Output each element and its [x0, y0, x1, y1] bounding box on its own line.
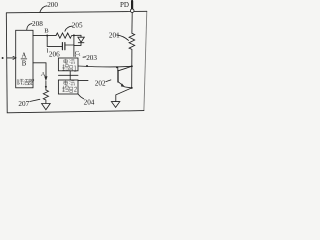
current mirror 2 box	[58, 80, 78, 94]
svg-text:208: 208	[32, 20, 43, 28]
junction dot emitter node	[131, 87, 133, 89]
label C1 leader	[74, 55, 76, 57]
ground 204 triangle	[111, 102, 119, 108]
arrow on A wire	[44, 76, 47, 81]
outer block border 200	[6, 11, 147, 113]
junction dot at 205/206 node	[73, 34, 75, 36]
node A wire	[33, 63, 46, 90]
resistor R205	[56, 33, 81, 38]
mirror2 text: dian liu / jing xiang 2	[62, 81, 76, 93]
divider box text: chu fa qi	[17, 79, 34, 85]
svg-text:200: 200	[47, 1, 58, 9]
label 203 leader	[83, 56, 86, 58]
capacitor right lead	[65, 44, 74, 46]
svg-text:201: 201	[109, 32, 120, 40]
transistor Q202	[117, 67, 119, 70]
text labels	[18, 1, 129, 108]
junction dot on mirror1 wire	[86, 65, 88, 67]
junction dot collector node	[131, 65, 133, 67]
diode 203	[80, 35, 82, 37]
label 204 leader	[78, 94, 84, 99]
svg-text:A: A	[41, 71, 46, 78]
node B wire	[33, 35, 56, 37]
PD terminal lead	[131, 1, 133, 9]
ground under R207	[42, 104, 51, 110]
svg-text:205: 205	[72, 22, 83, 30]
mirror1 text: dian liu / jing xiang 1	[62, 59, 76, 71]
junction dot on node A wire	[45, 86, 47, 88]
divider fraction bar	[21, 58, 27, 60]
wire to ground	[116, 66, 132, 101]
input wire	[7, 57, 13, 59]
input arrow	[13, 56, 16, 59]
label 208 leader	[27, 24, 32, 30]
svg-text:B: B	[22, 61, 27, 68]
label 207 leader	[30, 99, 40, 101]
resistor R201	[129, 13, 135, 67]
divider box 208	[16, 30, 33, 88]
current mirror 1 box	[58, 58, 78, 71]
junction dot base column	[116, 66, 118, 68]
svg-text:1: 1	[79, 52, 81, 57]
svg-text:206: 206	[49, 51, 60, 59]
svg-text:207: 207	[18, 100, 29, 108]
label 205 leader	[65, 26, 73, 31]
mirror1 output wire	[78, 65, 132, 68]
chinese text drawn as glyph strokes	[17, 59, 76, 92]
separator line between mirror boxes	[58, 74, 78, 76]
svg-text:204: 204	[84, 99, 95, 107]
svg-text:PD: PD	[120, 1, 129, 9]
label 201 leader	[117, 35, 129, 41]
svg-text:202: 202	[95, 80, 106, 88]
svg-text:B: B	[44, 28, 49, 35]
PD terminal circle	[130, 9, 134, 13]
svg-text:A: A	[22, 52, 27, 59]
svg-text:203: 203	[86, 54, 97, 62]
resistor R207	[43, 90, 48, 103]
junction dot B	[46, 35, 48, 37]
capacitor plates	[61, 43, 63, 50]
outer border right edge	[144, 11, 147, 110]
mirror interconnect	[69, 71, 71, 80]
label 206 leader	[46, 48, 48, 52]
ink speck left margin	[2, 57, 4, 59]
mirror2 output wire to base	[78, 80, 111, 82]
node column to mirror 1	[73, 35, 75, 56]
capacitor C1 206 branch	[47, 36, 62, 47]
label 200 leader	[40, 6, 47, 13]
emitter arrow	[121, 83, 125, 87]
